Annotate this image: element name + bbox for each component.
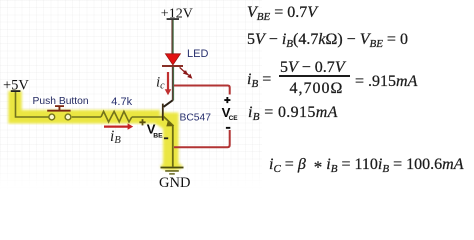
current label iC bbox=[156, 75, 165, 92]
equation 2: 5V - iB(4.7kOhm) - VBE = 0 bbox=[247, 32, 408, 48]
resistor value label 4.7k bbox=[111, 96, 132, 108]
current label iB bbox=[110, 128, 121, 146]
V_BE annotation (+, V_BE, -) bbox=[139, 119, 168, 139]
LED label bbox=[187, 48, 208, 60]
V_CE annotation (+, V_CE, -) bbox=[222, 97, 239, 129]
wire emitter to ground bbox=[172, 126, 174, 167]
push button label bbox=[33, 96, 89, 107]
resistor R1 4.7k zigzag bbox=[101, 111, 132, 122]
grid background bbox=[0, 0, 262, 190]
highlighted net (emitter to ground path) bbox=[159, 113, 183, 171]
svg-text:GND: GND bbox=[159, 175, 190, 191]
svg-text:BC547: BC547 bbox=[180, 112, 212, 123]
power +5V label bbox=[3, 78, 29, 94]
highlighted net (base current path +5V to base) bbox=[15, 91, 160, 117]
wire resistor to transistor base bbox=[132, 116, 162, 118]
ground symbol bbox=[161, 167, 184, 175]
LED emission arrows bbox=[180, 67, 193, 78]
equation 5: iC = beta * iB = 110 iB = 100.6mA bbox=[269, 157, 463, 176]
current arrow iC bbox=[165, 72, 172, 95]
equation 4: iB = 0.915mA bbox=[248, 105, 338, 121]
V_CE measurement bracket (red) bbox=[174, 86, 230, 148]
LED D1 bbox=[162, 54, 183, 67]
ground label GND bbox=[159, 175, 190, 191]
svg-text:4.7k: 4.7k bbox=[111, 96, 132, 108]
equation 1: VBE = 0.7V bbox=[247, 5, 317, 21]
wire +5V down and to push button bbox=[16, 92, 50, 117]
power +12V label bbox=[161, 6, 193, 21]
equation 3: iB = (5V-0.7V)/4700 = .915mA bbox=[247, 72, 271, 88]
transistor Q1 BC547 bbox=[162, 100, 174, 126]
wire +12V to LED anode bbox=[172, 20, 173, 54]
push button S1 bbox=[47, 105, 71, 120]
svg-text:Push Button: Push Button bbox=[33, 96, 89, 107]
svg-text:CE: CE bbox=[229, 115, 239, 122]
svg-text:ic: ic bbox=[156, 75, 165, 92]
wire LED cathode to collector bbox=[172, 67, 173, 101]
wire button to resistor bbox=[72, 116, 101, 118]
current arrow iB bbox=[104, 123, 133, 129]
transistor label BC547 bbox=[180, 112, 212, 123]
svg-text:LED: LED bbox=[187, 48, 208, 60]
svg-text:BE: BE bbox=[153, 133, 163, 140]
svg-text:iB: iB bbox=[110, 128, 121, 146]
